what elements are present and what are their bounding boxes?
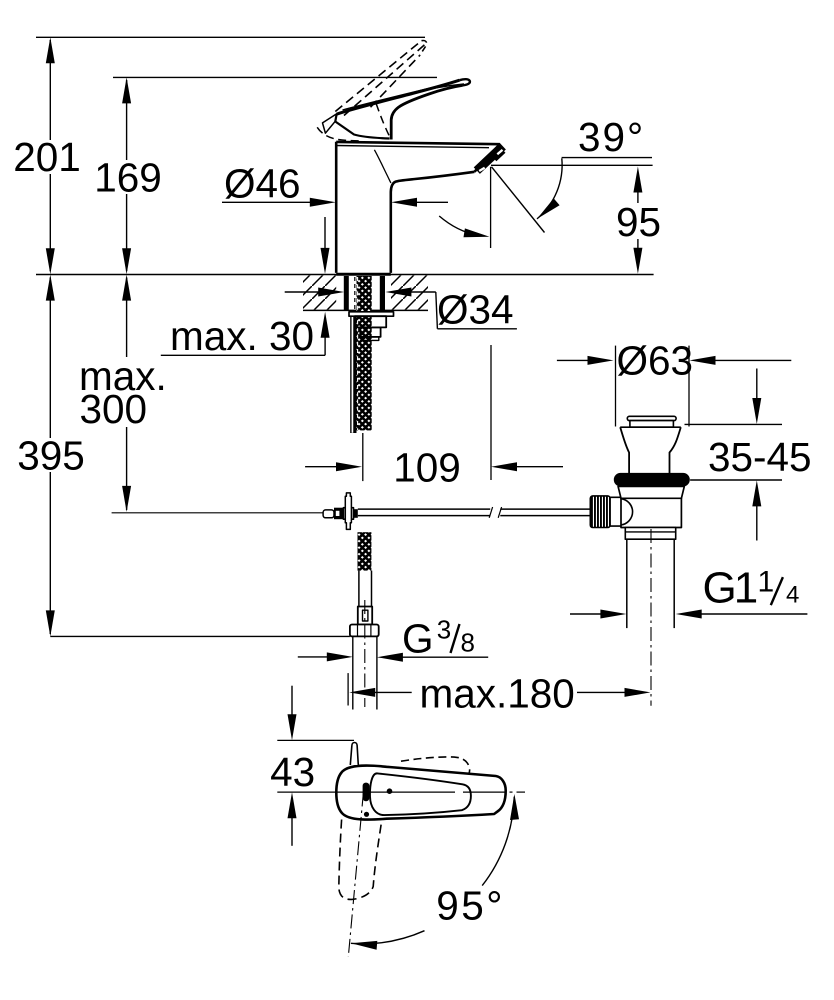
handle (solid, rest position) top edge	[337, 80, 460, 114]
dimension Ø34	[285, 287, 517, 333]
reference line bottom of 395	[50, 635, 350, 637]
drain locking rings	[625, 528, 675, 540]
svg-text:395: 395	[17, 433, 85, 479]
drain body	[621, 498, 681, 527]
drain plug cap	[627, 416, 676, 420]
drain knurled knob	[590, 496, 610, 528]
svg-text:109: 109	[393, 445, 461, 491]
svg-text:95: 95	[616, 199, 661, 245]
label G1 1/4	[703, 564, 800, 613]
mounting nut step 3	[362, 337, 379, 341]
top view dot 1	[387, 788, 393, 794]
handle raised (dashed) outer line	[335, 41, 421, 112]
extension line faucet axis	[362, 433, 364, 481]
svg-text:39°: 39°	[578, 114, 645, 160]
95° swing arc upper	[482, 797, 514, 886]
flow direction arrow	[464, 228, 490, 237]
vertical pop-up rod	[345, 493, 351, 530]
svg-text:169: 169	[94, 155, 162, 201]
dimension 109	[305, 445, 563, 491]
reference line (169 upper extent)	[113, 76, 437, 78]
handle tip lower face line	[407, 84, 464, 95]
handle tip	[460, 79, 470, 85]
cartridge dashed line	[376, 104, 389, 136]
top view dot 2	[364, 812, 369, 817]
drain body upper taper	[618, 486, 684, 498]
dimension max. 30	[161, 217, 330, 359]
svg-text:Ø46: Ø46	[224, 161, 301, 207]
spout top inner line	[336, 146, 489, 148]
in-deck pipe edge (dashed)	[354, 277, 356, 309]
aerator dark band	[477, 146, 503, 170]
svg-text:35-45: 35-45	[708, 434, 812, 480]
dimension 35-45	[685, 369, 812, 541]
rod cross fitting	[343, 508, 353, 520]
water stream line	[492, 167, 545, 233]
drain side port	[608, 497, 621, 526]
hose nut	[350, 625, 379, 637]
dimension max.300	[79, 275, 167, 512]
handle raised (dashed) lower line	[371, 55, 420, 107]
handle raised (dashed) bottom arc	[317, 127, 362, 141]
body-spout junction curve	[374, 150, 391, 183]
dimension 201	[13, 37, 81, 274]
svg-text:95°: 95°	[436, 883, 505, 929]
shank left wall	[344, 276, 349, 310]
horizontal rod to drain (right piece)	[489, 507, 492, 518]
hose connector	[358, 607, 372, 625]
svg-text:201: 201	[13, 134, 81, 180]
drain plug bell	[620, 426, 681, 428]
svg-text:43: 43	[270, 749, 315, 795]
svg-text:max.180: max.180	[420, 671, 575, 717]
dimension 43	[270, 686, 354, 846]
dimension 169	[94, 77, 162, 274]
faucet body / spout top edge	[336, 142, 500, 144]
dimension max.180	[348, 671, 650, 717]
label 39°	[491, 114, 653, 219]
spout end face	[475, 144, 500, 172]
deck top line	[36, 274, 654, 276]
top view lever inner face	[370, 773, 471, 815]
rod end ferrule	[323, 510, 334, 518]
deck hatching left	[303, 275, 336, 309]
top view rotated axis (dash-dot)	[348, 793, 363, 958]
extension line spout axis	[490, 345, 492, 480]
svg-text:Ø63: Ø63	[617, 338, 694, 384]
mounting nut step 1	[355, 316, 386, 327]
mounting flange	[349, 312, 394, 316]
svg-text:max. 30: max. 30	[170, 313, 314, 359]
supply pipe centerline	[364, 600, 366, 707]
rod clamp wedge right	[354, 509, 358, 518]
svg-text:Ø34: Ø34	[437, 287, 514, 333]
label G 3/8	[402, 615, 475, 662]
drain tailpipe	[626, 539, 628, 628]
horizontal rod to drain (left piece)	[358, 508, 490, 510]
95° swing arc lower	[351, 931, 425, 944]
mounting nut step 2	[360, 327, 380, 337]
svg-text:G1: G1	[703, 564, 757, 613]
shank right wall	[380, 276, 385, 310]
handle raised (dashed) tip cap	[420, 40, 427, 55]
extension line below aerator	[490, 167, 492, 248]
body base dark line	[336, 273, 391, 276]
supply pipe left	[350, 317, 356, 434]
top view handle rotated down (dashed)	[339, 819, 382, 899]
svg-text:1: 1	[758, 566, 775, 599]
faucet body left edge	[335, 142, 338, 273]
reference line top (201 upper extent)	[36, 36, 425, 38]
top view rotated lever (dashed)	[401, 757, 470, 776]
svg-text:4: 4	[786, 582, 799, 609]
dimension G3/8 arrows	[298, 652, 488, 661]
95° arrow lower	[351, 941, 377, 950]
top view handle outline	[336, 766, 505, 820]
rod clamp block	[334, 508, 343, 520]
handle top face line	[343, 82, 457, 110]
svg-text:G: G	[402, 616, 434, 662]
95° arrow upper	[510, 794, 519, 820]
spout underside	[391, 172, 475, 273]
hose end tube	[358, 571, 360, 607]
dimension Ø63	[557, 338, 791, 427]
svg-text:8: 8	[461, 628, 475, 658]
handle back edge	[335, 114, 336, 121]
flow direction arc	[439, 216, 477, 235]
flexible hose braid upper	[357, 276, 372, 430]
top view pin	[350, 743, 358, 766]
supply pipe G3/8	[352, 636, 354, 709]
svg-text:3: 3	[437, 615, 451, 645]
top view marker bar	[363, 783, 370, 802]
handle raised (dashed) inner line	[344, 44, 426, 116]
top view centerline	[277, 791, 455, 793]
deck bottom line	[303, 309, 428, 311]
handle underside	[391, 85, 462, 139]
handle back wedge	[323, 113, 338, 133]
pop-up rod left extension	[112, 512, 324, 514]
39° arc arrow	[537, 198, 560, 219]
dimension 95	[616, 167, 661, 274]
drain seal ring	[614, 473, 690, 487]
39° angle arc	[537, 158, 562, 219]
flexible hose braid lower	[358, 532, 372, 570]
dimension G1 1/4 arrows	[570, 610, 807, 619]
svg-text:300: 300	[80, 386, 148, 432]
drain centerline	[650, 529, 652, 706]
deck hatching right	[391, 275, 428, 309]
dimension Ø46	[222, 161, 448, 207]
dimension 395	[17, 275, 85, 637]
handle bottom edge	[335, 122, 389, 139]
